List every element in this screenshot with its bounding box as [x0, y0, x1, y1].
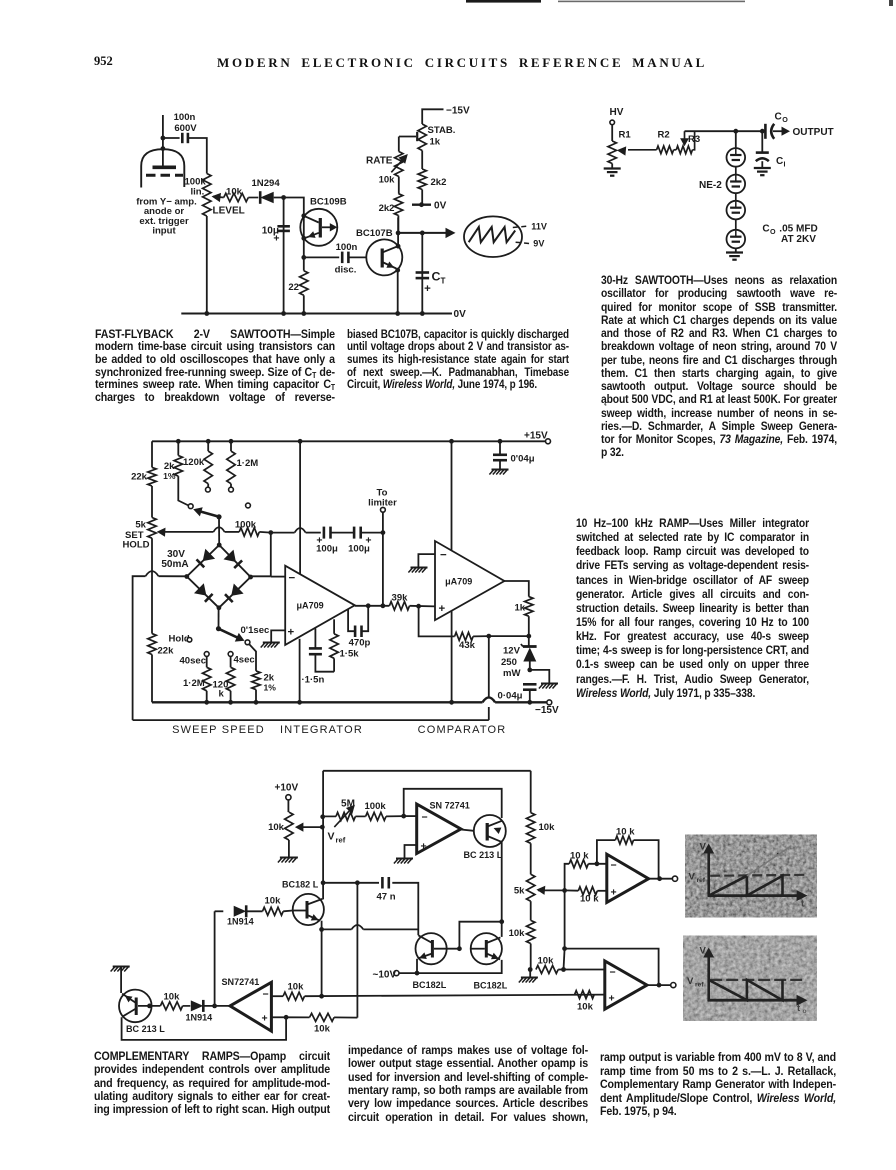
node vref 5M — [320, 814, 325, 819]
R3 end up — [692, 131, 694, 150]
svg-text:100k: 100k — [365, 801, 387, 812]
svg-text:0·04μ: 0·04μ — [498, 691, 523, 702]
svg-text:10k: 10k — [164, 992, 181, 1003]
bridge rectifier 30V 50mA frame — [187, 545, 219, 577]
svg-text:0'1sec: 0'1sec — [241, 625, 271, 636]
svg-text:10k: 10k — [509, 928, 526, 939]
wire 39k to plus — [410, 605, 436, 608]
node top-of-CRT — [161, 136, 166, 141]
wire minus to op — [404, 815, 417, 817]
wire C1 to ground — [761, 161, 763, 167]
node zener top — [526, 634, 531, 639]
BC109B right lead — [322, 226, 333, 228]
LEVEL wiper arrow — [213, 197, 224, 198]
diode 1N914 upper — [234, 906, 247, 917]
svg-text:2k2: 2k2 — [379, 203, 395, 214]
wire zener down — [529, 662, 531, 670]
wire pot to ground — [288, 840, 290, 857]
potentiometer STAB 1k — [418, 124, 426, 151]
svg-text:5M: 5M — [341, 799, 355, 810]
wire diode2 to out node — [203, 1005, 230, 1007]
node bc213 coll line — [499, 919, 504, 924]
wire 1.5k top — [333, 619, 335, 634]
Q4 base wire — [293, 910, 306, 912]
wire 1.5n top — [314, 629, 316, 649]
node a4 out — [657, 983, 662, 988]
svg-text:10k: 10k — [379, 175, 396, 186]
node 10u branch — [281, 195, 286, 200]
wire a4 out — [647, 984, 671, 986]
wire a4 feedback — [565, 949, 659, 986]
node Q5 base — [457, 946, 462, 951]
wire A2 plus input — [271, 1016, 286, 1018]
zener diode 12V 250mW — [523, 645, 537, 648]
ground vref pot — [280, 857, 298, 859]
svg-text:470p: 470p — [349, 638, 371, 649]
node 470p left — [366, 603, 371, 608]
resistor 1k comp — [525, 597, 533, 617]
capacitor 100n disc — [341, 252, 344, 264]
svg-text:V: V — [328, 831, 335, 843]
capacitor 0.04u lower — [523, 683, 537, 686]
STAB wiper — [399, 136, 416, 138]
svg-text:0V: 0V — [434, 201, 447, 212]
wire left edge down — [151, 441, 153, 467]
node tolimiter-output — [381, 603, 386, 608]
wire diode to base node — [274, 198, 304, 216]
wire a3in left — [565, 864, 570, 891]
BC107B base bar — [381, 249, 384, 268]
resistor 2k2 right — [418, 169, 426, 190]
wire rate to 2k2 — [398, 177, 400, 194]
svg-text:11V: 11V — [531, 222, 547, 232]
ground Q7 emitter — [113, 966, 130, 968]
wire q5 emitter to -10V — [416, 959, 418, 973]
wire 10k chain top — [530, 771, 532, 813]
wire 470p left — [348, 610, 355, 632]
wire a3 minus — [588, 863, 607, 865]
svg-text:C: C — [776, 156, 783, 167]
wire 47n right — [392, 883, 418, 936]
ground U1 plus — [263, 642, 280, 644]
svg-text:22k: 22k — [158, 646, 175, 657]
svg-text:−: − — [611, 860, 617, 872]
svg-text:1%: 1% — [264, 683, 277, 693]
resistor 2k 1pc upper — [174, 456, 182, 477]
resistor 100k c4 — [366, 812, 386, 820]
CRT dashed electrode — [146, 174, 183, 177]
wire 100k to node — [259, 531, 271, 534]
terminal HV — [610, 120, 615, 125]
5k wiper line — [538, 889, 565, 891]
Q4 base bar — [306, 901, 309, 919]
resistor 120k — [204, 451, 212, 484]
node bridge right — [248, 575, 253, 580]
wire 10u branch — [283, 198, 285, 314]
neon NE-2 #4 — [727, 230, 746, 249]
transistor Q5 BC182L pair-left — [416, 933, 447, 964]
Q5 collector lead — [418, 935, 432, 943]
wire R2-R3 — [674, 149, 677, 151]
svg-text:10k: 10k — [226, 187, 243, 198]
terminal a3 out — [672, 876, 677, 881]
op-amp A4 thick — [605, 961, 647, 1009]
svg-text:1N294: 1N294 — [252, 178, 281, 189]
wire -15V — [422, 109, 443, 124]
svg-text:ref: ref — [697, 877, 706, 884]
terminal +15V — [546, 439, 551, 444]
wire to diode1 — [215, 910, 224, 912]
node gnd 10k — [528, 967, 533, 972]
wire 5M to 100k — [355, 815, 365, 817]
node zener bottom — [527, 668, 532, 673]
wire cap to BC107B base — [348, 256, 366, 258]
wire og to node — [558, 969, 563, 971]
svg-text:12V: 12V — [503, 646, 521, 657]
resistor 10k d1 — [263, 907, 284, 915]
wire U2 minus input — [418, 554, 435, 566]
Q5 emitter lead — [418, 954, 432, 959]
ground zener — [541, 683, 558, 685]
terminal spare contact — [246, 503, 251, 508]
rail dots c3 — [176, 439, 181, 444]
wire U1 Vminus pin — [299, 639, 301, 703]
svg-text:~10V: ~10V — [373, 970, 397, 981]
transistor Q7 BC213L circle — [119, 990, 152, 1023]
svg-text:R1: R1 — [619, 130, 632, 141]
wire C0 to output — [773, 130, 784, 132]
svg-text:100n: 100n — [174, 112, 196, 123]
diode 1N914 lower — [191, 1000, 204, 1011]
op-amp A1 SN72741 — [417, 804, 461, 853]
wire plus down 43k — [419, 606, 455, 636]
svg-text:10 k: 10 k — [616, 827, 635, 838]
wire op1 Vplus pin — [299, 441, 301, 574]
terminal -15V — [547, 700, 552, 705]
op-amp U1 uA709 triangle — [285, 566, 355, 645]
node q4 emitter minus — [319, 994, 324, 999]
bridge diode top-left — [203, 549, 215, 561]
svg-text:O: O — [782, 116, 788, 124]
feedback over top — [404, 789, 502, 818]
svg-text:1k: 1k — [430, 137, 441, 148]
resistor 2k 1pc lower — [252, 671, 260, 690]
svg-text:100μ: 100μ — [316, 544, 338, 555]
svg-text:100n: 100n — [336, 242, 358, 253]
svg-text:disc.: disc. — [335, 265, 357, 276]
wire 0.1sec to 2k — [250, 645, 257, 671]
Q5 bar — [431, 940, 434, 958]
wire 47n line — [323, 882, 379, 884]
wire 22k to 5k — [151, 486, 153, 518]
resistor 1.2M upper — [227, 451, 235, 484]
Q7 collector lead — [122, 1009, 136, 1017]
svg-text:10 k: 10 k — [580, 894, 599, 905]
wire A2 minus input — [271, 995, 283, 997]
terminal 0.1sec — [245, 640, 250, 645]
wire down 564 — [564, 890, 566, 948]
svg-text:BC107B: BC107B — [356, 228, 393, 239]
svg-text:+15V: +15V — [524, 431, 548, 442]
wire 43k to node — [473, 635, 489, 637]
CRT tube envelope — [141, 149, 184, 187]
wire U2 output — [504, 581, 528, 597]
terminal 120k contact — [206, 487, 211, 492]
resistor 22 — [300, 271, 308, 296]
svg-text:1k: 1k — [515, 603, 526, 614]
node collector — [396, 244, 401, 249]
wire 10k to diode — [248, 197, 258, 199]
resistor 43k — [455, 632, 474, 640]
resistor 120k lower — [226, 667, 234, 691]
svg-text:1·2M: 1·2M — [237, 458, 259, 469]
transistor Q2 BC107B circle — [366, 239, 402, 275]
terminal 2k contact — [188, 504, 193, 509]
wire outer right up — [488, 707, 490, 720]
scope ellipse — [464, 216, 522, 257]
wire 1.2M to bus — [206, 691, 208, 703]
op-amp U2 uA709 triangle — [435, 541, 504, 620]
wire 120k to bus — [230, 691, 232, 703]
vref wiper — [301, 826, 322, 828]
svg-text:10k: 10k — [265, 896, 282, 907]
wire 10k to diode2 — [183, 1005, 191, 1007]
terminal 4sec — [228, 652, 233, 657]
svg-text:+: + — [611, 887, 617, 899]
node a3 minus — [595, 861, 600, 866]
wire 5k down — [151, 538, 153, 633]
svg-text:I: I — [784, 161, 786, 169]
svg-text:C: C — [762, 224, 769, 235]
Q6 emitter lead — [487, 954, 501, 960]
range switch wiper — [196, 510, 219, 517]
svg-text:ref: ref — [695, 981, 704, 988]
node wiper pivot — [216, 514, 221, 519]
svg-text:+: + — [424, 283, 431, 295]
svg-text:BC182 L: BC182 L — [282, 880, 319, 890]
wire stab to 2k2 — [421, 151, 423, 170]
wire +10V to pot — [287, 800, 289, 812]
svg-text:47 n: 47 n — [376, 892, 395, 903]
wire Q4 emitter node — [415, 971, 420, 976]
rail +15V — [152, 440, 546, 442]
node a3 out — [657, 876, 662, 881]
diode 1N294 — [260, 192, 274, 203]
node 47n-y929 T — [417, 928, 419, 930]
bus -15V — [152, 701, 483, 703]
Q6 base lead — [471, 948, 485, 950]
svg-text:10k: 10k — [577, 1002, 594, 1013]
wire d1 to 10k — [246, 910, 262, 912]
wire bridge left line — [159, 575, 188, 577]
resistor 1.2M lower — [203, 667, 211, 691]
terminal To limiter — [381, 507, 386, 512]
wire tolimiter down — [382, 512, 384, 606]
resistor 10k a3in — [569, 860, 588, 868]
Q5 base lead — [434, 948, 459, 950]
wire emitter to rail — [397, 270, 399, 313]
svg-text:BC182L: BC182L — [413, 980, 447, 990]
node comp plus — [416, 604, 421, 609]
hop mid line over wiper — [213, 527, 224, 532]
wire 4sec — [230, 656, 232, 667]
node y929 left — [319, 927, 324, 932]
svg-text:O: O — [770, 228, 776, 236]
RATE arrow — [391, 157, 405, 173]
node op1 minus — [401, 814, 406, 819]
resistor 10k chain2 — [527, 920, 535, 943]
ground chain — [521, 977, 538, 979]
wire to neon1 — [735, 131, 737, 148]
node hold pivot — [216, 626, 221, 631]
svg-text:COMPARATOR: COMPARATOR — [418, 724, 507, 736]
wire base up-over — [459, 922, 501, 949]
potentiometer 10k vref — [285, 812, 293, 840]
dash 11V — [513, 226, 529, 228]
svg-text:SN72741: SN72741 — [222, 977, 260, 987]
BC107B emitter lead — [382, 262, 396, 269]
svg-text:C: C — [432, 270, 441, 284]
svg-text:−: − — [422, 812, 428, 824]
resistor 10k a2plus — [310, 1013, 335, 1021]
wire Q7 collector loop — [122, 1017, 287, 1040]
wire a3plus in — [597, 890, 607, 892]
svg-text:SWEEP SPEED: SWEEP SPEED — [172, 724, 265, 736]
resistor 22k upper — [148, 467, 156, 486]
svg-text:−: − — [263, 989, 269, 1001]
ground C1 — [754, 167, 771, 169]
svg-text:1·2M: 1·2M — [183, 678, 205, 689]
ground neons — [726, 251, 743, 253]
wire 40sec — [206, 656, 208, 667]
R1 wiper arrow — [628, 149, 657, 151]
BC109B emitter lead — [305, 233, 319, 238]
capacitor 0.04u top — [493, 453, 507, 456]
wire Q4 emitter down — [321, 921, 323, 997]
wire input to minus — [271, 576, 285, 578]
Q3 base bar — [486, 823, 489, 841]
mid line hop to 100k — [225, 531, 240, 533]
capacitor 100u #1 — [323, 527, 326, 539]
node CT branch — [420, 231, 425, 236]
wire pivot down — [218, 517, 220, 545]
node vref wiper — [320, 825, 325, 830]
potentiometer 100k lin LEVEL — [203, 174, 211, 217]
CRT anode plate — [153, 166, 177, 170]
svg-text:50mA: 50mA — [161, 559, 188, 570]
5M arrow — [334, 808, 352, 827]
op-amp A3 thick — [607, 854, 649, 902]
svg-text:22: 22 — [288, 282, 299, 293]
potentiometer R1 — [608, 141, 616, 164]
svg-text:NE-2: NE-2 — [699, 180, 722, 191]
wire pivot to bridge — [218, 608, 220, 629]
wire a2plus to 47nvert — [334, 1016, 357, 1018]
wire A1 plus input — [405, 845, 417, 858]
node A2 plus — [284, 1015, 289, 1020]
svg-text:+: + — [609, 993, 615, 1005]
capacitor 100n 600V — [181, 133, 184, 143]
wire a3 out — [649, 878, 672, 880]
5k wiper arrow — [162, 531, 213, 533]
resistor 100k c3 — [239, 528, 259, 536]
svg-text:9V: 9V — [533, 239, 544, 249]
terminal 1.2M contact — [229, 487, 234, 492]
svg-text:+: + — [262, 1013, 268, 1025]
wire 5M lead — [323, 815, 336, 817]
potentiometer RATE 10k — [395, 152, 403, 177]
svg-text:10k: 10k — [288, 982, 305, 993]
wire wiper cont — [565, 889, 579, 891]
svg-text:1N914: 1N914 — [186, 1013, 213, 1023]
wire 0.04u to bus — [529, 690, 531, 703]
svg-text:V: V — [700, 946, 707, 957]
node 47n mid — [355, 880, 360, 885]
wire chain mid2 — [530, 901, 532, 920]
Q6 collector lead — [487, 937, 501, 943]
node 43k right — [486, 634, 491, 639]
resistor 10k chain1 — [527, 813, 535, 844]
svg-text:−: − — [610, 967, 616, 979]
terminal a4 out — [671, 983, 676, 988]
node line top — [685, 130, 766, 132]
compensation 1.5n cap — [309, 647, 322, 650]
resistor 22k lower — [148, 634, 156, 655]
wire collector node — [397, 218, 399, 247]
svg-text:120k: 120k — [183, 457, 205, 468]
wire U2 Vplus pin — [451, 441, 453, 550]
wire a2minus line — [305, 995, 605, 997]
resistor R3 — [676, 146, 692, 154]
svg-text:5k: 5k — [135, 520, 146, 531]
wire 100u to tolimiter — [361, 532, 383, 534]
resistor 10k a3plus — [578, 887, 597, 895]
svg-text:V: V — [689, 872, 696, 883]
ground A1 plus — [396, 858, 413, 860]
wire HV to R1 — [611, 125, 613, 141]
svg-text:250: 250 — [501, 657, 517, 668]
ground R1 — [604, 167, 621, 169]
svg-text:.05 MFD: .05 MFD — [777, 224, 818, 235]
neon NE-2 #3 — [727, 201, 746, 220]
BC109B collector lead — [304, 216, 319, 223]
wire plus to 10k — [286, 1016, 309, 1018]
wire Q6 emitter down — [399, 960, 502, 973]
svg-text:C: C — [775, 112, 782, 123]
Q3 emitter lead — [487, 821, 502, 827]
wire 1.2M contact — [230, 484, 232, 487]
svg-text:BC182L: BC182L — [474, 981, 508, 991]
svg-text:2k2: 2k2 — [431, 177, 447, 188]
wire bridge right line — [251, 575, 271, 577]
svg-text:+: + — [439, 603, 446, 615]
svg-text:+: + — [421, 841, 427, 853]
wire og to opamp4 — [564, 969, 605, 971]
node BC109B upper — [301, 213, 306, 218]
wire R1 to ground — [611, 164, 613, 169]
wire 100k to minus node — [386, 815, 404, 817]
Q7 base lead — [138, 1005, 160, 1007]
node BC109B lower — [301, 236, 306, 241]
rail 0V circuit1 — [181, 313, 452, 315]
wire rate top — [398, 137, 400, 152]
svg-text:−15V: −15V — [446, 106, 470, 117]
capacitor 47n — [381, 877, 384, 889]
hop over bridge-left — [146, 571, 159, 576]
wire outer left vert — [133, 576, 146, 720]
wire vref vertical — [322, 771, 324, 900]
resistor R2 — [657, 146, 674, 154]
